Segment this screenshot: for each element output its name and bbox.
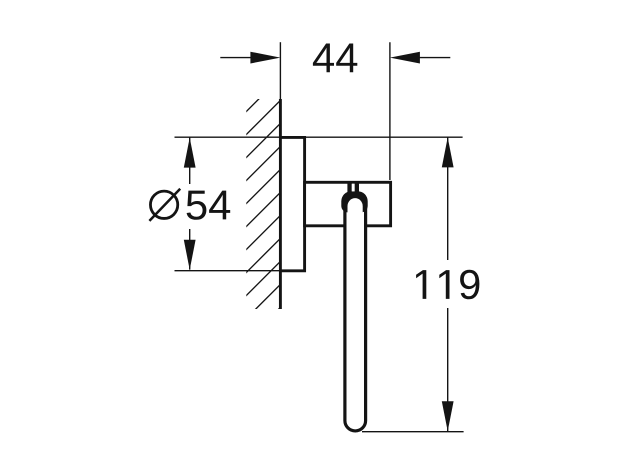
O54 dim line: [189, 137, 191, 269]
text: digit 4 of 44: [336, 44, 357, 73]
white interior dome of knuckle: [348, 198, 363, 222]
ring (stadium outline): [345, 194, 366, 431]
44 dim: left extension line above wall: [279, 42, 281, 100]
white slot between stem bars: [352, 184, 355, 192]
text: digit 4 of 44: [313, 44, 334, 73]
stem bar right: [355, 181, 359, 194]
diameter symbol slash: [149, 189, 180, 221]
44 dim line left tail: [220, 57, 251, 59]
119 down arrow: [442, 401, 454, 431]
O54 text halo: [144, 184, 234, 229]
holder body: [305, 182, 391, 226]
text: digit 1 of 119: [439, 270, 449, 299]
wall face line: [279, 99, 282, 309]
text: digit 1 of 119: [416, 270, 426, 299]
44 dim: right extension line: [389, 42, 391, 180]
text: digit 5 of 54: [187, 191, 207, 220]
stem bar left: [347, 181, 351, 194]
44 dim line right tail: [419, 57, 450, 59]
text: digit 4 of 54: [209, 191, 230, 220]
extension line: rosette top to 119 dim (thin): [175, 136, 463, 138]
knuckle (black cap at ring top): [341, 191, 367, 212]
O54 up arrow: [184, 138, 196, 168]
119 text halo: [410, 260, 486, 308]
extension line: ring bottom to 119 dim (thin): [362, 431, 464, 433]
44 left arrow: [250, 52, 280, 64]
119 up arrow: [442, 137, 454, 167]
44 right arrow: [390, 52, 420, 64]
text: digit 9 of 119: [460, 270, 479, 300]
wall hatching: [235, 65, 293, 353]
O54 down arrow: [184, 240, 196, 270]
diameter symbol circle: [150, 191, 177, 218]
rosette (wall plate) outline: [280, 137, 304, 270]
extension line: rosette bottom (thin, left of wall): [175, 270, 281, 272]
119 dim line: [447, 137, 449, 431]
